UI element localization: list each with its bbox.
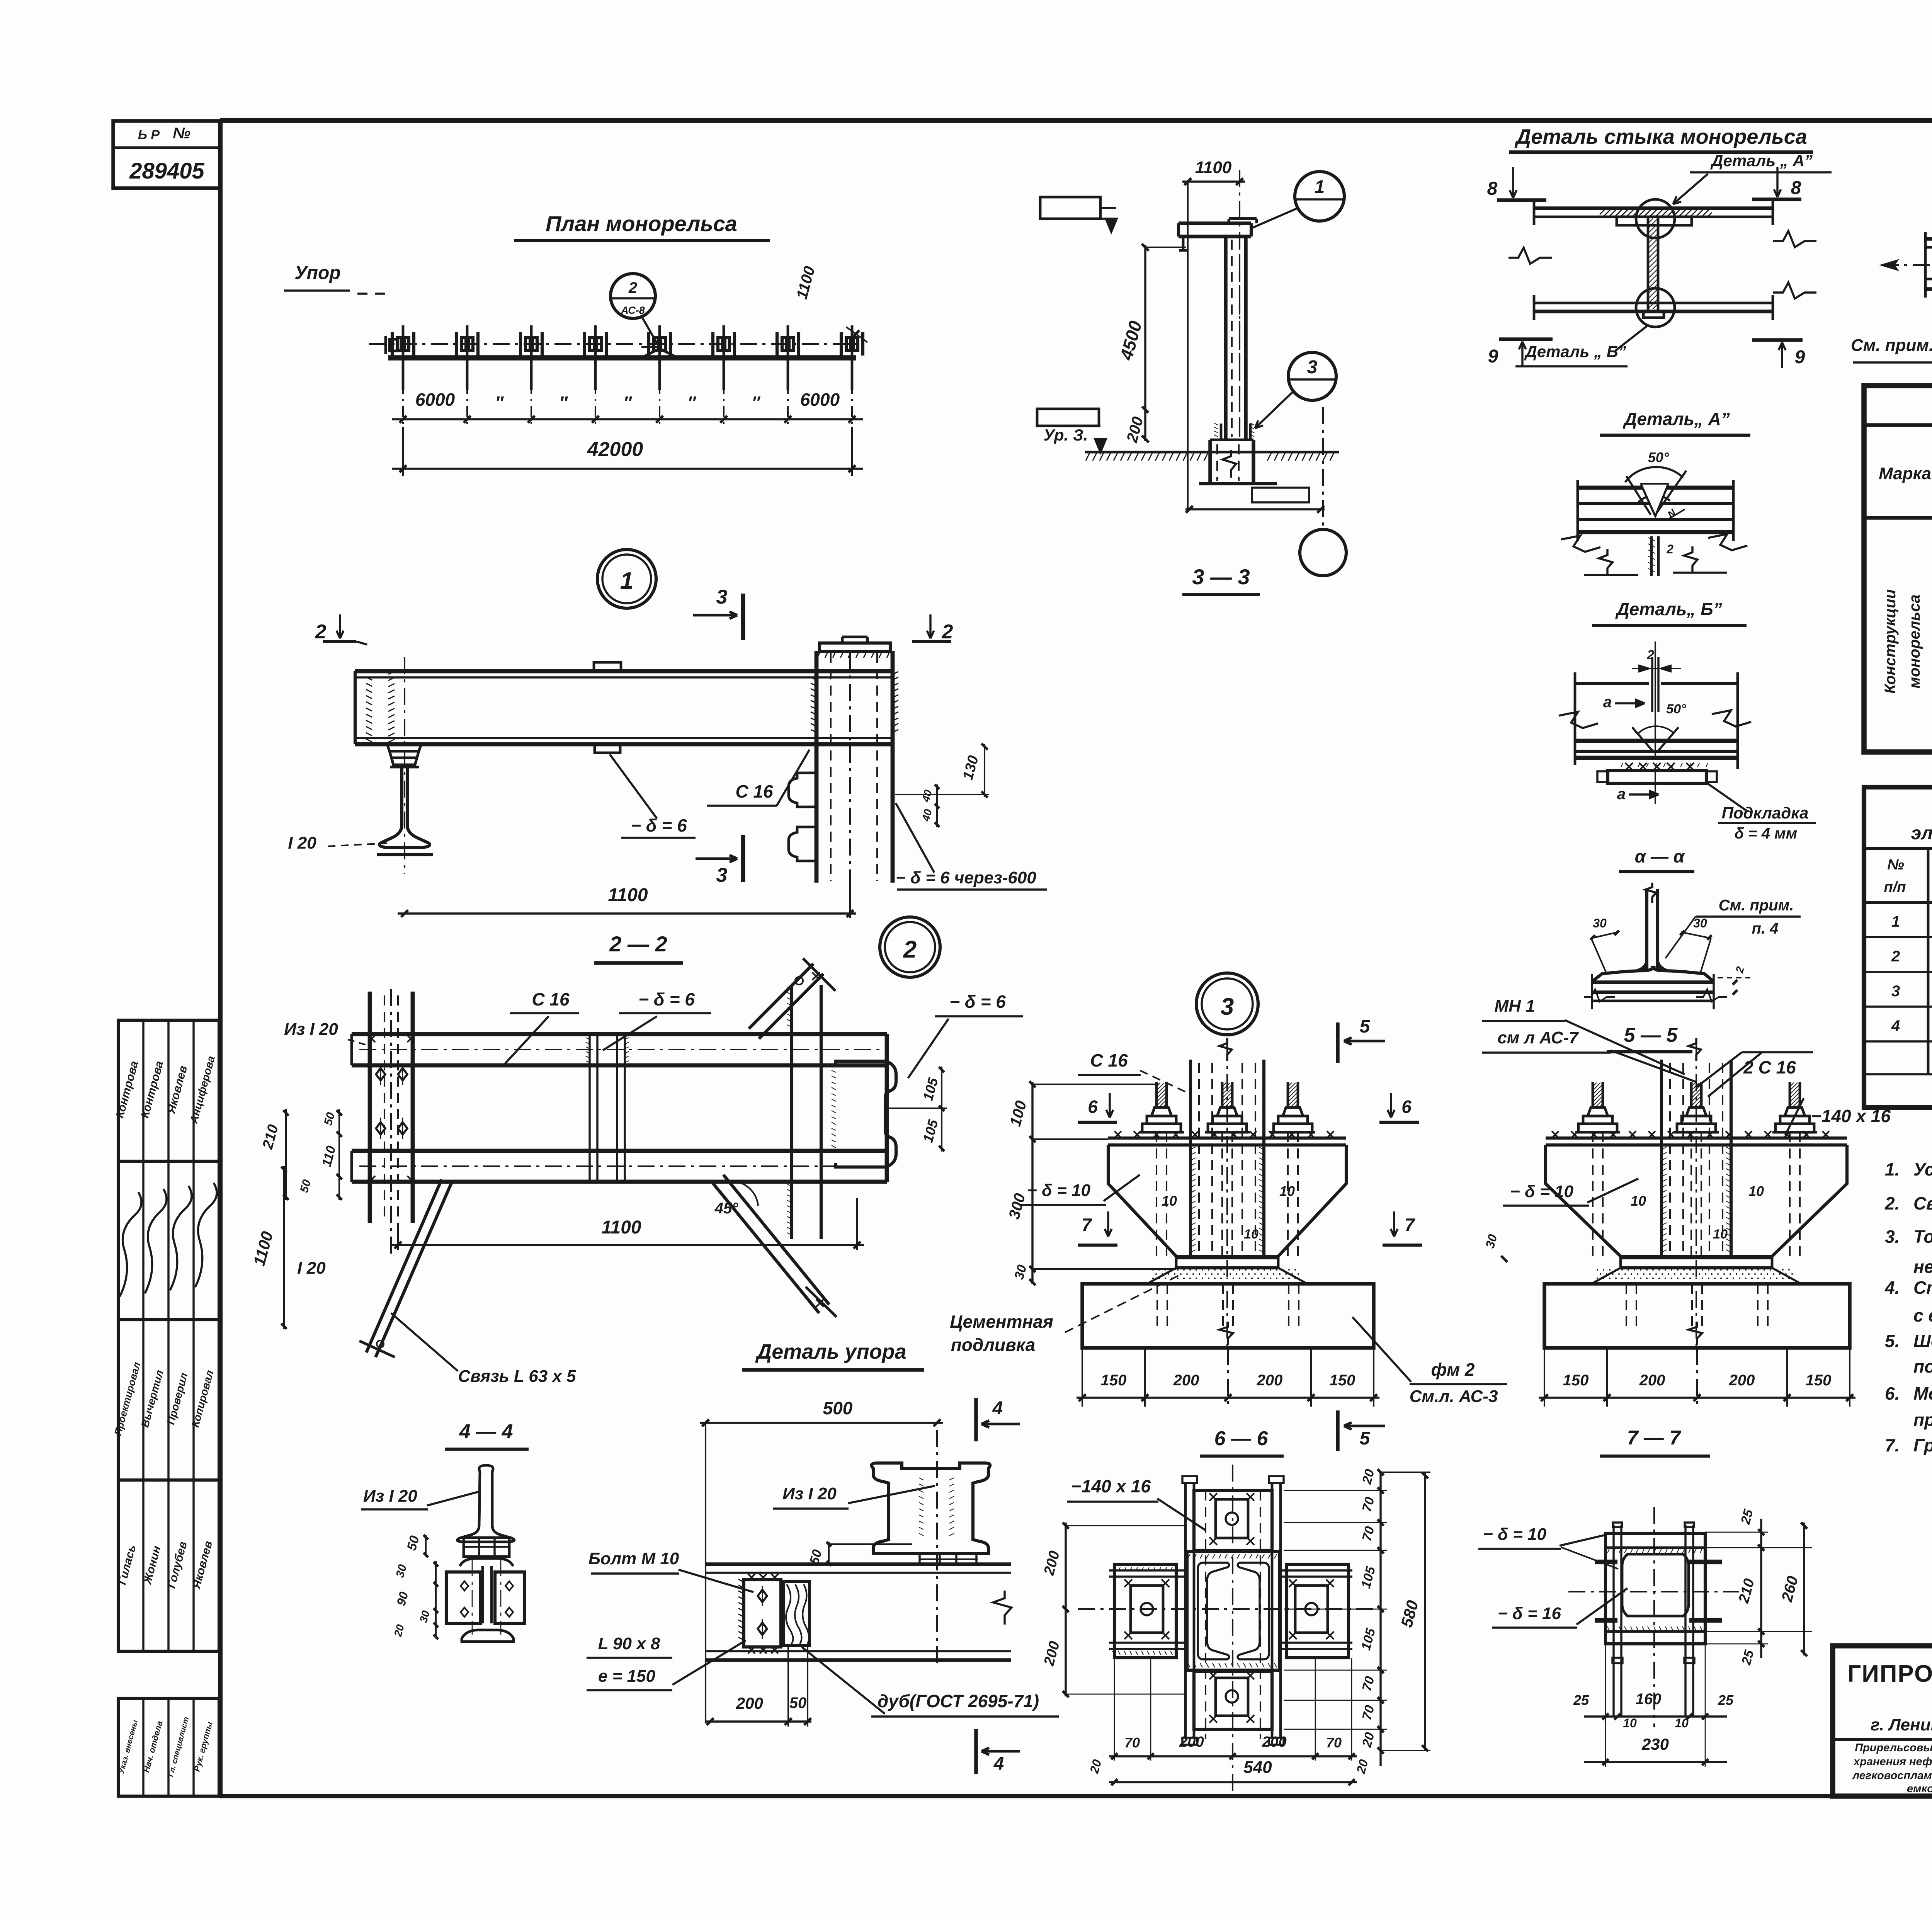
lower level mark [1037, 409, 1099, 426]
sec5-5 gusset trapezoid [1546, 1145, 1847, 1256]
svg-text:Прирельсовый склад резервуарно: Прирельсовый склад резервуарного [1855, 1742, 1932, 1754]
small rail hook under bracket [1182, 236, 1185, 250]
section 7-7 title [1478, 1427, 1812, 1767]
svg-text:при заварке шва вержнего п: при заварке шва вержнего пояса. [1913, 1410, 1932, 1430]
section mark 4 top [974, 1398, 978, 1441]
node circle 1 (view 1 marker) [288, 550, 1047, 918]
beam bottom flange lines [1534, 302, 1773, 305]
svg-text:− δ = 10: − δ = 10 [1027, 1181, 1090, 1200]
svg-text:подливка: подливка [951, 1335, 1036, 1355]
vertical bolts 7-7 [1612, 1525, 1614, 1660]
callout circle 2/AC-8 [611, 274, 655, 318]
callout circle 1 [1295, 172, 1344, 221]
sec5-5 foundation dim line 150-200-200-150 [1544, 1348, 1545, 1407]
svg-text:2 — 2: 2 — 2 [609, 932, 667, 956]
svg-text:″: ″ [687, 393, 696, 412]
svg-text:″: ″ [623, 393, 632, 412]
svg-text:6000: 6000 [800, 390, 840, 410]
svg-text:− δ = 16: − δ = 16 [1498, 1604, 1561, 1623]
svg-text:−140 x 16: −140 x 16 [1811, 1106, 1891, 1126]
svg-text:Деталь„ А”: Деталь„ А” [1622, 409, 1730, 429]
C16 channel vertical right [790, 985, 793, 1239]
section 3-3 column elevation [1037, 158, 1346, 594]
bottom beam strip 2-2 [352, 1149, 887, 1153]
axis line to bottom circle [1322, 407, 1324, 529]
column centerline [1239, 170, 1240, 437]
web gap verticals [1651, 657, 1653, 712]
svg-text:200: 200 [1179, 1734, 1204, 1750]
svg-text:См. прим. п.6: См. прим. п.6 [1851, 336, 1932, 355]
fillet welds a-a [1635, 960, 1647, 971]
dim 540 bottom [1109, 1781, 1357, 1783]
svg-text:См. прим.: См. прим. [1719, 897, 1794, 914]
left hanger weld hatch [366, 677, 372, 742]
table header lines [1864, 516, 1932, 520]
svg-text:фм 2: фм 2 [1431, 1359, 1475, 1380]
svg-text:10: 10 [1748, 1183, 1764, 1199]
svg-text:см л АС-7: см л АС-7 [1497, 1028, 1579, 1047]
svg-text:230: 230 [1641, 1735, 1669, 1753]
beam end ticks [1533, 200, 1536, 225]
svg-text:− δ = 6: − δ = 6 [949, 992, 1006, 1012]
svg-text:10: 10 [1244, 1227, 1259, 1242]
svg-text:См.л. АС-3: См.л. АС-3 [1410, 1387, 1498, 1406]
svg-text:I 20: I 20 [288, 834, 316, 852]
svg-text:1: 1 [1315, 177, 1325, 197]
sec5-5 bottom plate [1621, 1256, 1772, 1259]
C profile at beam end [836, 1061, 896, 1167]
leader circle1 to column [1252, 209, 1296, 228]
sec5-5 column shaft [1660, 1060, 1663, 1258]
archive stamp box top-left [113, 121, 221, 188]
rail centerline [404, 657, 405, 874]
centerlines 7-7 [1653, 1507, 1655, 1727]
top bracket of column [1179, 221, 1251, 225]
V weld inverted [1632, 727, 1654, 753]
svg-text:25: 25 [1718, 1692, 1734, 1708]
node3 baseplate [1108, 1136, 1346, 1140]
left column I-beam in plan [368, 992, 372, 1223]
svg-text:подкладки срезать и зачисти: подкладки срезать и зачистить. [1913, 1356, 1932, 1376]
weld hatch on top flange at splice [1600, 209, 1712, 216]
V notch white wedge [1641, 484, 1668, 516]
north bolt square [1216, 1499, 1248, 1538]
svg-text:1.: 1. [1885, 1159, 1900, 1179]
svg-text:3: 3 [716, 586, 728, 608]
sec5-5 foundation block [1544, 1284, 1850, 1348]
oak block hatched [784, 1581, 810, 1645]
svg-text:1100: 1100 [601, 1217, 641, 1238]
node3 column shaft [1189, 1060, 1192, 1258]
dimension line 42000 [392, 468, 863, 470]
leader circle3 to base [1255, 390, 1294, 428]
svg-text:3: 3 [1221, 994, 1234, 1020]
svg-text:дуб(ГОСТ 2695-71): дуб(ГОСТ 2695-71) [878, 1691, 1039, 1711]
lower flange curve [460, 1558, 513, 1566]
detail of monorail splice (Detal styka monorelsa) [1487, 125, 1832, 368]
svg-text:С 16: С 16 [735, 781, 773, 801]
svg-text:с ездовой поверхностью пол: с ездовой поверхностью полки. [1913, 1305, 1932, 1325]
dims 200 50 stop [706, 1720, 811, 1722]
column cap [820, 643, 890, 652]
sidebar group bottom [118, 1698, 219, 1796]
sec5-5 baseplate [1546, 1136, 1847, 1140]
stop symbol at left rail end [389, 339, 398, 351]
svg-text:4: 4 [1891, 1017, 1900, 1034]
svg-text:Монтажные планки δ=8 испо: Монтажные планки δ=8 использовать как по… [1913, 1383, 1932, 1404]
cleats under profile [920, 1553, 940, 1565]
svg-text:Шов завести на подкладку,: Шов завести на подкладку, после сварки к… [1913, 1331, 1932, 1351]
section mark 5 near node 3 [1336, 1022, 1340, 1063]
svg-text:2: 2 [1891, 948, 1900, 965]
svg-text:4: 4 [992, 1398, 1003, 1419]
right column of view1 [815, 651, 819, 883]
beam flange lines 8-8 [1925, 237, 1932, 241]
south bolt plate [1194, 1671, 1272, 1729]
svg-text:160: 160 [1636, 1691, 1662, 1708]
svg-text:9: 9 [1488, 346, 1498, 367]
lower I beam web and plates [481, 1566, 484, 1623]
column shaft [1224, 236, 1228, 440]
node3 foundation bolt dashes inside [1156, 1284, 1158, 1329]
node3 gusset trapezoid [1108, 1145, 1346, 1256]
west connector strips [1109, 1569, 1185, 1571]
witness dashdot from column center [849, 653, 851, 885]
right dims 7-7 (25/210/25 and 260) [1760, 1519, 1762, 1658]
svg-text:1: 1 [1891, 913, 1900, 930]
empty label box [1252, 488, 1309, 502]
sidebar group signatures [118, 1161, 219, 1320]
svg-text:5: 5 [1360, 1428, 1371, 1449]
sec5-5 cement pad dotted [1592, 1268, 1801, 1284]
dim 1100 view1 [398, 912, 856, 914]
svg-text:Марка: Марка [1879, 464, 1931, 483]
monorail rail plan line [388, 355, 856, 361]
node3 anchor bolts [1139, 1131, 1184, 1134]
ground line with hatching [1085, 451, 1339, 454]
section 2-2 plan of beam [250, 917, 1023, 1386]
svg-text:№: № [1887, 857, 1904, 873]
svg-text:4: 4 [993, 1754, 1004, 1774]
node3 cement pad dotted [1147, 1268, 1307, 1284]
anchor bolts at column base [1220, 424, 1223, 440]
svg-text:г. Ленинград, 1975 г.: г. Ленинград, 1975 г. [1871, 1715, 1932, 1734]
dimension line 6000 x7 [392, 418, 863, 420]
node circle 3 marker [1196, 973, 1258, 1035]
svg-text:Цементная: Цементная [950, 1312, 1053, 1332]
svg-text:Подкладка: Подкладка [1722, 804, 1809, 822]
plate stack 4-4 [464, 1538, 509, 1557]
title block [1833, 1646, 1932, 1798]
svg-text:элементам конструкций: элементам конструкций [1911, 823, 1932, 844]
sheet border frame [220, 118, 1932, 123]
beam end plate [885, 1034, 889, 1182]
rail hanger stack [387, 744, 421, 751]
svg-text:Деталь „ А”: Деталь „ А” [1710, 151, 1813, 170]
section 6-6 title [1041, 1410, 1430, 1793]
svg-text:70: 70 [1124, 1735, 1140, 1751]
bottom flange 4-4 [462, 1630, 514, 1642]
svg-text:150: 150 [1101, 1372, 1127, 1389]
svg-text:монорельса: монорельса [1906, 595, 1923, 689]
sidebar group roles [118, 1320, 219, 1480]
centerlines 4-4 [472, 1559, 473, 1635]
bottom dims 7-7 (25/160/25 and 10/10 and 230) [1584, 1715, 1727, 1717]
svg-text:10: 10 [1623, 1716, 1637, 1730]
centerlines 6-6 [1232, 1465, 1233, 1793]
svg-text:10: 10 [1713, 1227, 1728, 1242]
flange of tee [1592, 966, 1655, 982]
top beam strip 2-2 [352, 1032, 887, 1036]
svg-text:2: 2 [903, 936, 917, 963]
table of elements (Tablica elementov) [1864, 386, 1932, 752]
left dim chain 6-6 (200/200) [1065, 1523, 1066, 1696]
section mark 4 bottom [974, 1729, 978, 1774]
svg-text:Толщина неоговоренных швов: Толщина неоговоренных швов hш должна быт… [1913, 1227, 1932, 1247]
empty circle below [1300, 529, 1346, 576]
right dim chain 6-6 [1379, 1472, 1381, 1766]
section a-a [1584, 846, 1801, 1009]
flange lines detail B [1575, 739, 1738, 743]
svg-text:План монорельса: План монорельса [546, 211, 737, 236]
columns [1927, 849, 1930, 1074]
bottom splice plate [1643, 311, 1664, 318]
svg-text:легковоспламеняющихся жидкост: легковоспламеняющихся жидкостей [1852, 1769, 1932, 1782]
sidebar group names 2 [118, 1480, 219, 1651]
middle stiffener plates 2-2 [588, 1034, 590, 1182]
V groove lines [1626, 476, 1651, 515]
svg-text:200: 200 [1729, 1372, 1755, 1389]
svg-text:Деталь упора: Деталь упора [755, 1340, 906, 1363]
beam top flange view1 [355, 669, 893, 674]
svg-text:e = 150: e = 150 [598, 1667, 656, 1686]
horizontal bolt rods 7-7 [1595, 1560, 1617, 1564]
svg-text:30: 30 [1693, 916, 1707, 930]
svg-text:7.: 7. [1885, 1435, 1900, 1455]
svg-text:хранения нефтепродуктов и друг: хранения нефтепродуктов и других [1853, 1756, 1932, 1768]
svg-text:3: 3 [1891, 983, 1900, 1000]
break marks detail A [1561, 536, 1600, 552]
svg-text:6.: 6. [1885, 1383, 1900, 1404]
svg-text:7: 7 [1082, 1215, 1092, 1235]
detail A weld detail [1561, 409, 1750, 576]
svg-text:10: 10 [1631, 1193, 1646, 1209]
svg-text:Стыковые швы на ширине 30: Стыковые швы на ширине 30 мм зачистить з… [1913, 1278, 1932, 1298]
upper web stem of inverted I [457, 1465, 514, 1542]
svg-text:6: 6 [1401, 1097, 1412, 1117]
bottom dim chain 6-6 (70/200/200/70) [1109, 1755, 1357, 1757]
svg-text:п. 4: п. 4 [1752, 920, 1779, 937]
svg-text:8: 8 [1487, 179, 1498, 199]
section 8-8 [1851, 152, 1932, 362]
svg-text:45°: 45° [714, 1200, 738, 1217]
svg-text:200: 200 [1639, 1372, 1665, 1389]
svg-text:500: 500 [823, 1398, 853, 1418]
svg-text:50°: 50° [1666, 702, 1686, 716]
svg-text:Связь L 63 x 5: Связь L 63 x 5 [458, 1367, 576, 1386]
web joint below [1650, 536, 1653, 576]
dimension witness lines [403, 359, 852, 476]
svg-text:4 — 4: 4 — 4 [459, 1421, 513, 1443]
svg-text:− δ = 10: − δ = 10 [1483, 1525, 1546, 1544]
svg-text:2: 2 [628, 279, 637, 296]
svg-text:α — α: α — α [1635, 846, 1685, 866]
svg-text:№: № [173, 125, 190, 142]
stop main beam bottom lines [706, 1650, 1011, 1652]
svg-text:Условные обозначения швов с: Условные обозначения швов см на листе АС… [1913, 1159, 1932, 1179]
5-5 column base drawing [1546, 1038, 1847, 1349]
rail I-20 cross profile [390, 766, 419, 769]
section mark 5 bottom (near 6-6) [1336, 1410, 1340, 1451]
foundation block [1208, 440, 1212, 483]
svg-text:Из I 20: Из I 20 [782, 1484, 837, 1503]
brace marks at callout stanchion [641, 349, 660, 358]
centerline stop [936, 1430, 938, 1666]
channel profile inside 7-7 [1622, 1554, 1689, 1616]
node 3 column base drawing [1108, 1038, 1346, 1349]
bottom dim line [1185, 508, 1325, 510]
svg-text:ГИПРОЛЕСТРАНС: ГИПРОЛЕСТРАНС [1847, 1660, 1932, 1687]
section 4-4 [361, 1421, 529, 1642]
svg-text:8: 8 [1791, 178, 1801, 198]
svg-text:10: 10 [1162, 1193, 1177, 1209]
svg-text:30: 30 [1593, 916, 1607, 930]
svg-text:2.: 2. [1884, 1193, 1900, 1213]
svg-text:150: 150 [1563, 1372, 1589, 1389]
detail B weld detail [1559, 599, 1816, 842]
svg-text:2: 2 [1666, 542, 1673, 556]
left sidebar stamp boxes [112, 1020, 219, 1796]
svg-text:150: 150 [1330, 1372, 1355, 1389]
svg-text:3: 3 [716, 864, 728, 886]
svg-text:− δ = 6: − δ = 6 [631, 815, 687, 835]
svg-text:АС-8: АС-8 [621, 305, 645, 316]
x marks at strip crossings [368, 1035, 375, 1042]
svg-text:150: 150 [1806, 1372, 1832, 1389]
outer plate box 7-7 [1605, 1533, 1705, 1644]
svg-text:200: 200 [1257, 1372, 1283, 1389]
svg-text:− δ = 6: − δ = 6 [638, 989, 695, 1009]
long bolts vertical dashes [1205, 1490, 1206, 1739]
svg-text:6000: 6000 [415, 390, 455, 410]
beam break right [993, 1591, 1012, 1625]
svg-text:С 16: С 16 [532, 989, 570, 1009]
svg-text:3: 3 [1307, 357, 1318, 378]
table outer border [1864, 386, 1932, 752]
svg-text:″: ″ [495, 393, 504, 412]
east connector strips [1281, 1569, 1352, 1571]
dims 105 105 right [941, 1067, 942, 1152]
I-20 beam profile on stop [872, 1463, 990, 1553]
svg-text:δ = 4 мм: δ = 4 мм [1735, 825, 1798, 842]
svg-text:6 — 6: 6 — 6 [1214, 1427, 1269, 1450]
svg-text:I 20: I 20 [297, 1259, 326, 1278]
node3 dims left (100,300,30) [1031, 1082, 1033, 1284]
svg-text:10: 10 [1675, 1716, 1689, 1730]
svg-text:а: а [1617, 786, 1626, 803]
node circle 2 [880, 917, 940, 977]
beam top edge detail B [1575, 682, 1649, 685]
svg-text:МН 1: МН 1 [1494, 997, 1535, 1016]
lower C16 bracket on column [789, 827, 816, 861]
svg-text:Из I 20: Из I 20 [284, 1020, 338, 1039]
bolt plate with welds [744, 1580, 781, 1647]
svg-text:Болт М 10: Болт М 10 [588, 1549, 679, 1568]
bolts M10 on plate [758, 1590, 767, 1602]
beam end verticals detail A [1577, 480, 1579, 541]
break marks detail B [1559, 712, 1598, 728]
svg-text:42000: 42000 [587, 438, 643, 461]
svg-text:а: а [1603, 694, 1612, 711]
svg-text:Ь Р: Ь Р [138, 128, 160, 142]
svg-text:Деталь стыка монорельса: Деталь стыка монорельса [1514, 125, 1807, 148]
lower diagonal brace 2-2 [713, 1183, 819, 1313]
svg-text:540: 540 [1243, 1758, 1272, 1777]
notes list 1-7 [1884, 1159, 1932, 1455]
stop detail (Detal upora) [587, 1340, 1059, 1774]
weld x marks row [1625, 763, 1694, 771]
beam end verticals detail B [1574, 672, 1577, 765]
sidebar group names 1 [118, 1020, 219, 1161]
dim 230 7-7 [1584, 1761, 1727, 1763]
upper diagonal brace 2-2 [749, 964, 813, 1029]
svg-text:Упор: Упор [294, 263, 340, 283]
centerline 8-8 [1882, 264, 1932, 266]
svg-text:50°: 50° [1648, 449, 1669, 465]
dim 580 rotated [1424, 1472, 1426, 1751]
bottom strip [1605, 1630, 1705, 1633]
column weld hatch left face [811, 677, 816, 732]
svg-text:4.: 4. [1884, 1278, 1900, 1298]
svg-text:Конструкции: Конструкции [1882, 589, 1899, 694]
dim 1100 bottom 2-2 [391, 1244, 864, 1246]
svg-text:6: 6 [1088, 1097, 1098, 1117]
lower left diagonal (to svyaz) [376, 1183, 451, 1357]
svg-text:не менее 6 мм.: не менее 6 мм. [1913, 1257, 1932, 1277]
vertical gusset plates (edge view) [1184, 1483, 1187, 1738]
svg-text:200: 200 [1262, 1734, 1286, 1750]
detail circle B [1636, 288, 1675, 327]
witness centerline left column [390, 989, 392, 1256]
svg-text:50: 50 [789, 1694, 807, 1711]
svg-text:п/п: п/п [1884, 879, 1906, 895]
leader from callout to rail [641, 316, 659, 347]
svg-text:70: 70 [1326, 1735, 1342, 1751]
bottom tab for -d=6 [595, 744, 620, 753]
plan view stanchions (8 posts) [392, 325, 863, 390]
upper C16 bracket on column [789, 773, 816, 807]
svg-text:1100: 1100 [1195, 158, 1232, 177]
flange section lines detail A [1578, 486, 1733, 490]
svg-text:2: 2 [942, 621, 953, 643]
detail circle A [1636, 199, 1675, 238]
5-5 foundation [1539, 1284, 1855, 1407]
north bolt plate [1194, 1490, 1272, 1550]
svg-text:10: 10 [1279, 1183, 1295, 1199]
svg-text:3.: 3. [1885, 1227, 1900, 1247]
svg-text:1100: 1100 [608, 885, 648, 905]
svg-text:L 90 x 8: L 90 x 8 [598, 1634, 660, 1653]
web of tee [1645, 889, 1648, 971]
svg-text:−140 x 16: −140 x 16 [1071, 1476, 1151, 1496]
svg-text:25: 25 [1573, 1692, 1589, 1708]
svg-text:200: 200 [1173, 1372, 1199, 1389]
end ticks a-a [1591, 974, 1593, 1009]
svg-text:емкостью 2000 м³: емкостью 2000 м³ [1907, 1783, 1932, 1795]
stop main beam top lines [706, 1562, 1011, 1566]
sec5-5 anchor bolts [1575, 1131, 1620, 1134]
beam bottom flange view1 [355, 737, 893, 739]
